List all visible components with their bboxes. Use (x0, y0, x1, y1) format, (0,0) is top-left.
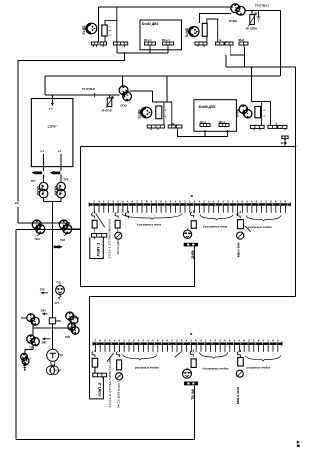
riser ЗСиЕ to tie wire (284, 139, 286, 147)
svg-text:БсМ6 ДМ1: БсМ6 ДМ1 (199, 105, 216, 109)
stub в-2 (225, 42, 233, 45)
svg-text:4 резервные ячейки: 4 резервные ячейки (202, 367, 228, 371)
transformer ТН (47, 349, 59, 365)
stub ЗСиЕ (282, 136, 288, 139)
svg-text:ТМ4: ТМ4 (65, 336, 71, 339)
svg-text:ЗТП: ЗТП (40, 288, 45, 291)
relay box ЗРН (49, 318, 55, 324)
wire ОРУ to ОГ2 (45, 94, 119, 96)
riser ЗВт-2 (227, 130, 229, 137)
wire ЛЭП-2 link (94, 367, 96, 373)
breaker ЛЭП-1 (92, 220, 97, 228)
wire ТСН-1 link (117, 228, 119, 232)
riser to ОГ2 cluster (122, 76, 124, 86)
svg-text:БсМВ: БсМВ (82, 25, 86, 35)
svg-text:ОТВН: ОТВН (229, 19, 237, 23)
cluster ТМ4 (68, 323, 79, 334)
generator G2 (БсМВ) (189, 27, 199, 37)
machine symbol ТВ (183, 368, 192, 378)
stub ЗВ м-1 (145, 42, 156, 47)
brace reserve cells bus1 right (246, 216, 281, 222)
stub ЗВт-2 (219, 124, 229, 127)
cluster ТМ3 (66, 312, 78, 324)
blade spare bus2 (175, 352, 182, 358)
switch blade ЛЭП-1 (96, 213, 105, 227)
wire bus2 feeder to bottom tie (16, 385, 195, 439)
wire (258, 11, 260, 17)
wide stub row2 right (250, 125, 264, 130)
cable head ЛЭП-2 (93, 373, 107, 379)
blade МВЗ-ВМ (245, 226, 251, 232)
breaker B4 row2-right (255, 106, 261, 117)
wire ОГ2 to row2 bay (130, 91, 153, 102)
breaker bay frame row2-right (262, 101, 271, 125)
wire row1 stub bus (117, 52, 168, 54)
svg-text:ЗСиЕ: ЗСиЕ (281, 142, 288, 145)
svg-text:в: в (220, 38, 222, 42)
breaker 2В (191, 221, 196, 229)
wire to ТР2 (60, 174, 62, 182)
svg-text:ЗУТ: ЗУТ (55, 302, 60, 305)
resistor 2Р ОГН2 (106, 95, 113, 108)
wire н-2 drop (60, 154, 62, 171)
svg-text:н-2: н-2 (58, 150, 62, 153)
busbar1 feeder ticks (94, 206, 285, 213)
riser box stub 2 (167, 47, 169, 53)
wire right edge drop (295, 67, 297, 297)
svg-text:резервные ячейки: резервные ячейки (248, 225, 272, 229)
resistor 2Р-ОТВН (248, 11, 256, 27)
stub row2r в-2 (278, 125, 287, 130)
wire tie top H146 (81, 145, 296, 147)
svg-text:МВЗ-ВМ: МВЗ-ВМ (237, 242, 241, 258)
svg-text:ТВН: ТВН (34, 237, 39, 241)
riser box stub 1 (149, 47, 151, 53)
svg-text:ТР-ОТВН2: ТР-ОТВН2 (82, 87, 96, 91)
stub row2 в-2 (176, 125, 182, 128)
wire drop H76 to bay (166, 76, 168, 102)
wire tie loop L1 (81, 146, 195, 286)
brace reserve cells bus2 left (123, 355, 157, 361)
transformer ТР1 (37, 182, 48, 198)
generator G3 (БсМВ) (141, 107, 152, 118)
svg-text:МСЗ-ДМ (щит): МСЗ-ДМ (щит) (117, 381, 121, 408)
wide stub row1 right (195, 42, 207, 47)
transformer symbol ТСН-2 (116, 373, 123, 380)
disconnector tick (94, 93, 96, 97)
stub ЗВт-1 (200, 124, 210, 127)
blade ТСН-2 (107, 353, 114, 362)
breaker ТВ (191, 359, 196, 368)
brace reserve cells bus1 mid (200, 215, 233, 221)
wire bus2 feed from right edge (90, 297, 296, 399)
arrow marker left branch (32, 171, 42, 175)
svg-text:в: в (276, 122, 278, 126)
hook feeder ЛЭП-2 (92, 350, 95, 357)
hook feeder ТСН-1 (115, 211, 118, 218)
transformer symbol right bus2 (236, 370, 243, 377)
hook feeder 2В (191, 211, 194, 218)
switch cluster ТВН (32, 220, 45, 234)
svg-text:2В: 2В (191, 249, 195, 259)
wide stub row1 c (114, 42, 128, 47)
stub row2 в-1 (168, 125, 177, 130)
box БсМ2 ДВ1 (140, 20, 182, 50)
svg-text:8 резервных ячеек: 8 резервных ячеек (203, 225, 228, 229)
wire ТМ2 drop (32, 323, 34, 335)
wire row2 stub bus (178, 130, 228, 137)
busbar2 tick numbers (95, 339, 279, 343)
svg-text:ТР2: ТР2 (64, 178, 69, 182)
hatch tail ПЭВ (23, 364, 27, 372)
box БсМ6 ДМ1 (194, 100, 237, 132)
hook feeder ТВ (190, 350, 193, 357)
brace reserve cells bus1 left (122, 214, 182, 220)
wire ОТВН to bay row1-right (199, 14, 231, 23)
arrester row1-right (257, 11, 261, 21)
cable box ЛЭП-2 (90, 377, 104, 399)
svg-text:н-0: н-0 (49, 108, 53, 111)
wire H67 tie (226, 66, 296, 68)
transformer symbol ТСН-1 (115, 232, 122, 239)
transformer symbol МВЗ-ВМ (237, 232, 244, 239)
transformer ОТВН cluster (231, 4, 245, 15)
ТЛ1 tail (58, 294, 61, 299)
cable head ЛЭП-1 (92, 234, 107, 240)
wire ТМ branch (33, 327, 72, 329)
generator G1 (БсМВ) (86, 23, 97, 34)
breaker B3 row2-left (156, 106, 162, 119)
wire drop to generator G1 (98, 7, 100, 42)
arrow marker center column (54, 245, 63, 249)
svg-text:ТЛ1: ТЛ1 (56, 281, 61, 285)
box ОРУ (31, 99, 73, 167)
wire н-1 drop (43, 154, 45, 171)
breaker B2 row1-right (202, 23, 207, 36)
svg-text:ТМ3: ТМ3 (74, 317, 80, 320)
breaker bay frame row1-left (105, 7, 117, 42)
riser into ОРУ box (51, 95, 53, 106)
arrow ЗМТ (42, 337, 51, 340)
wire (251, 11, 253, 15)
stub row2r в-1 (268, 125, 277, 128)
svg-text:н-1: н-1 (40, 150, 44, 153)
wire (109, 95, 111, 98)
breaker bay frame row2-left (164, 102, 172, 127)
platform bar 2В (184, 243, 198, 247)
svg-text:ЛЭП-1: ЛЭП-1 (96, 242, 100, 256)
wire ЛЭП-1 drop (94, 228, 96, 234)
svg-text:вЗ: вЗ (15, 201, 19, 205)
svg-text:6 резервных ячеек: 6 резервных ячеек (137, 223, 162, 227)
transformer cluster row2-right (239, 105, 252, 118)
brace reserve cells bus2 right (245, 356, 280, 362)
instrument ТЛ1 (56, 284, 65, 294)
breaker bay frame row1-right (207, 19, 218, 42)
arrow ЗТП (41, 291, 49, 294)
junction dot H67 (280, 66, 282, 68)
riser stub to wire (116, 47, 118, 53)
svg-text:ТСН-2 (2ТМ-560/10 кВ): ТСН-2 (2ТМ-560/10 кВ) (108, 357, 112, 408)
arrow marker right branch (50, 171, 60, 175)
busbar section 2 (93, 342, 283, 346)
machine symbol 2В (183, 229, 191, 239)
svg-text:ЗМЗ: ЗМЗ (41, 310, 47, 313)
meter СчТ (46, 366, 58, 375)
brace reserve cells bus2 mid (200, 353, 228, 359)
plus mark feeder МВЗ (236, 213, 239, 216)
svg-text:резервные ячейки: резервные ячейки (135, 365, 159, 369)
busbar2 feeder ticks (95, 345, 277, 352)
wire to ТР1 (43, 174, 45, 182)
svg-text:СчТ: СчТ (56, 368, 61, 372)
arrow ЗМЗ (42, 312, 48, 315)
stub ЗВ м-4 (163, 42, 174, 47)
riser ЗВт-1 (204, 130, 206, 137)
wire ТР merge (44, 198, 62, 202)
wire ТВН row upper (18, 222, 70, 224)
hook spare bus1 (125, 211, 128, 218)
svg-text:ТВ2: ТВ2 (60, 238, 65, 242)
wire ОТВН right (245, 10, 281, 12)
svg-text:МВЗ-ВМ: МВЗ-ВМ (236, 386, 240, 404)
wide stub row2 left (147, 125, 164, 130)
svg-text:ОРУ: ОРУ (48, 124, 58, 129)
platform bar ТВ (184, 382, 198, 386)
hook feeder МВЗ-ВМ (237, 211, 240, 218)
hook feeder ЛЭП-1 (92, 211, 95, 218)
hook feeder right bus2 (237, 350, 240, 357)
wire far-left vertical (15, 229, 17, 439)
wire to ПЭВ (25, 345, 33, 355)
wire W1 to left drop вЗ (18, 53, 125, 201)
stub ЗВ row1 a (92, 42, 99, 47)
transformer ОГ2 cluster (119, 86, 131, 101)
svg-text:БсМ2 ДВ1: БсМ2 ДВ1 (142, 22, 159, 26)
breaker ЛЭП-2 (92, 358, 98, 367)
page mark bottom right (297, 441, 300, 447)
svg-text:ТР1: ТР1 (31, 179, 36, 183)
hook feeder ТСН-2 (116, 350, 119, 357)
junction dot (124, 52, 126, 54)
breaker ТСН-1 (115, 220, 120, 228)
svg-text:ТСН-1 (2ТМ-560/10): ТСН-1 (2ТМ-560/10) (108, 219, 112, 259)
cluster ТМ2 (27, 314, 40, 326)
wire ТМ3 link (71, 322, 73, 328)
stub ЗВ row1 b (100, 42, 107, 47)
wire center column (51, 202, 53, 350)
switch cluster ТВ2 (59, 220, 72, 234)
busbar1 tick numbers (93, 199, 286, 203)
stub в-1 (216, 42, 231, 47)
cluster ТУ2 upper (27, 335, 40, 346)
svg-text:ОГи2: ОГи2 (121, 103, 128, 107)
breaker B1 row1-left (102, 25, 107, 36)
svg-text:ТН: ТН (59, 353, 63, 357)
breaker ТСН-2 (117, 360, 122, 370)
svg-text:ТР-ОТВН-1: ТР-ОТВН-1 (255, 4, 269, 8)
svg-text:2Р ОГН2: 2Р ОГН2 (102, 109, 113, 112)
svg-text:ЗМТ: ЗМТ (42, 341, 48, 344)
svg-text:резервные ячейки: резервные ячейки (247, 365, 271, 369)
busbar section 1 (89, 203, 291, 207)
mark + on ОГ2 (121, 85, 124, 88)
ТВ2 tail (64, 232, 67, 236)
svg-text:ЗРН: ЗРН (56, 320, 61, 323)
stub ЗВи2 (239, 42, 248, 47)
cable box ЛЭП-1 (90, 237, 104, 258)
wire drop ОТВН feed (280, 11, 282, 76)
wire drop to H67 (225, 55, 227, 67)
wire drop to ОРУ node (44, 76, 46, 95)
svg-text:ТМ2: ТМ2 (21, 317, 27, 320)
ТВН tail (37, 232, 40, 236)
breaker right bus2 (238, 358, 244, 367)
wire ТВН row lower (16, 228, 81, 230)
svg-text:2Р-ОТВН: 2Р-ОТВН (246, 26, 258, 30)
wire drop to row2-right bay (251, 67, 253, 101)
transformer ТР2 (55, 182, 66, 198)
breaker МВЗ-ВМ (238, 220, 244, 229)
wire row2-right bay top (252, 100, 271, 102)
junction dot tie (295, 145, 297, 147)
wire ТВ2 to tie loop (66, 228, 81, 230)
wire row2 bay top (153, 101, 172, 103)
wire top bus row1 (99, 6, 234, 8)
wire left vertical lower part (17, 207, 19, 223)
terminal arrow н-0 (51, 103, 54, 106)
cluster ПЭВ lower (21, 353, 29, 364)
svg-text:МСЗ-ДМ: МСЗ-ДМ (116, 240, 120, 255)
wire ЗВи2 drop to H67 (243, 55, 245, 67)
wire row2 feed H76 (45, 75, 281, 77)
wire stub link U (230, 47, 244, 55)
svg-text:ЛЭП-2: ЛЭП-2 (98, 382, 102, 396)
